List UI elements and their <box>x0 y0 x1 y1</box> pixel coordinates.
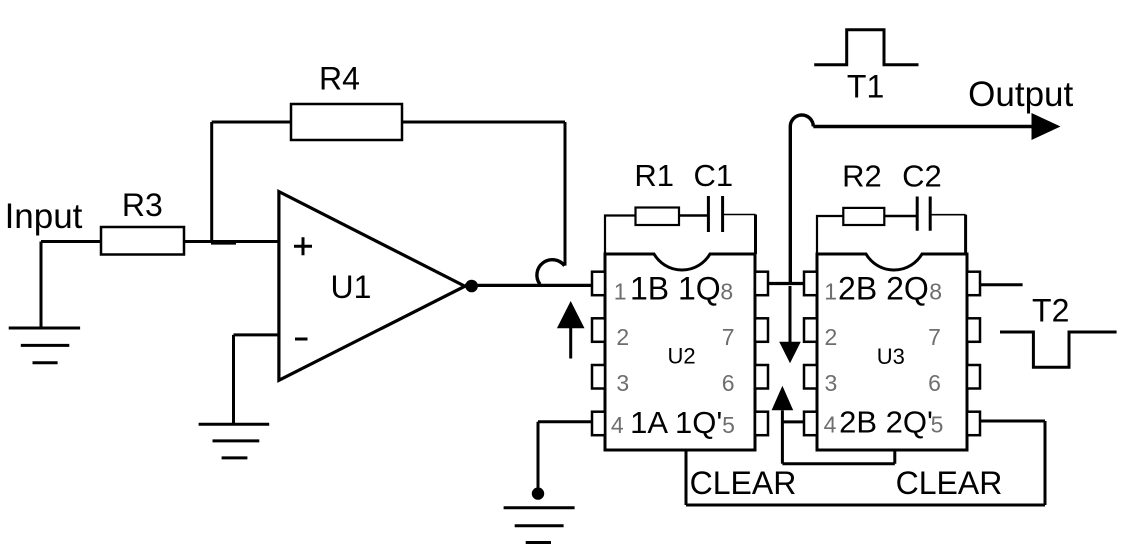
capacitor C2 <box>917 197 930 231</box>
U2 pin 6 box <box>755 365 768 389</box>
svg-text:1: 1 <box>614 279 627 305</box>
wire R1 C1 bracket right vertical <box>754 215 757 255</box>
U3 pin 2 box <box>804 318 817 342</box>
svg-text:R3: R3 <box>122 187 163 223</box>
svg-text:5: 5 <box>931 412 944 438</box>
wire hop curl at output arrow <box>790 115 813 127</box>
svg-text:Input: Input <box>5 197 83 236</box>
svg-text:1A 1Q': 1A 1Q' <box>630 405 722 440</box>
svg-text:R4: R4 <box>319 61 360 97</box>
wire C1 to bracket right <box>723 214 756 216</box>
U2 pin 3 box <box>592 365 605 389</box>
wire clear tee to U3 pin4 <box>782 420 804 423</box>
svg-text:C1: C1 <box>693 158 733 193</box>
wire R4 top right <box>402 121 565 124</box>
svg-text:8: 8 <box>929 279 942 305</box>
svg-text:2: 2 <box>616 324 629 350</box>
svg-text:T2: T2 <box>1032 293 1069 329</box>
U3 pin 1 box <box>804 272 817 296</box>
waveform T2 pulse <box>1000 332 1117 367</box>
U3 pin 3 box <box>804 365 817 389</box>
node ground junction dot <box>532 487 544 499</box>
svg-text:Output: Output <box>968 75 1073 114</box>
waveform T1 pulse <box>814 30 918 65</box>
U2 pin 5 box <box>755 412 768 436</box>
U2 pin 7 box <box>755 318 768 342</box>
ground input <box>9 328 80 363</box>
wire clear bus up to U3 pin5 <box>980 421 1046 505</box>
svg-text:R1: R1 <box>634 158 674 193</box>
capacitor C1 <box>708 196 722 232</box>
svg-text:3: 3 <box>616 370 629 396</box>
node output junction dot <box>465 280 478 293</box>
svg-text:5: 5 <box>722 412 735 438</box>
op-amp U1 <box>279 192 465 381</box>
U3 pin 8 box <box>967 272 980 296</box>
IC U2 body <box>605 254 755 450</box>
wire R2 C2 bracket left <box>817 216 843 254</box>
svg-text:7: 7 <box>928 324 941 350</box>
svg-text:7: 7 <box>722 324 735 350</box>
wire R2 to C2 <box>884 215 917 218</box>
svg-text:1B 1Q: 1B 1Q <box>630 271 721 307</box>
arrow output head <box>1032 113 1061 140</box>
svg-text:6: 6 <box>722 370 735 396</box>
op-amp plus sign <box>294 237 312 255</box>
wire R1 to C1 <box>679 214 708 217</box>
wire op-amp output to U2 pin1 <box>465 284 592 287</box>
svg-text:8: 8 <box>720 279 733 305</box>
wire U2 clear down <box>685 450 688 505</box>
wire R4 top left <box>212 121 291 124</box>
resistor R2 <box>843 208 884 225</box>
wire inverting input <box>234 335 281 424</box>
svg-text:U1: U1 <box>331 269 372 305</box>
resistor R4 <box>291 104 402 140</box>
wire input down to ground <box>40 242 43 329</box>
svg-text:U2: U2 <box>668 344 696 369</box>
svg-text:U3: U3 <box>877 344 905 369</box>
wire R3 to op-amp <box>184 240 280 243</box>
wire output tap vertical <box>789 127 792 284</box>
wire R1 C1 bracket left <box>605 216 636 255</box>
U3 pin 5 box <box>967 412 980 436</box>
wire hop curl at op-amp output <box>537 260 565 285</box>
wire C2 to bracket right <box>930 214 965 216</box>
svg-text:2: 2 <box>825 324 838 350</box>
wire clear bottom bus <box>686 504 1045 507</box>
wire U2 pin4 to ground <box>538 422 592 488</box>
svg-text:C2: C2 <box>902 159 942 194</box>
svg-text:6: 6 <box>928 370 941 396</box>
arrow rising edge into U2 <box>557 301 585 359</box>
op-amp minus sign <box>295 338 308 341</box>
svg-text:R2: R2 <box>842 159 882 194</box>
svg-text:CLEAR: CLEAR <box>896 465 1003 501</box>
svg-text:3: 3 <box>825 370 838 396</box>
wire R4 left vertical <box>210 122 213 242</box>
resistor R3 <box>101 227 184 255</box>
U2 pin 8 box <box>755 272 768 296</box>
resistor R1 <box>636 208 680 226</box>
wire output arrow line <box>813 125 1036 128</box>
svg-text:4: 4 <box>611 412 624 438</box>
arrow falling edge into U3 <box>779 286 801 363</box>
U2 pin 4 box <box>592 412 605 436</box>
U2 pin 1 box <box>592 272 605 296</box>
wire R2 C2 bracket right vertical <box>964 215 967 254</box>
svg-text:T1: T1 <box>847 69 884 105</box>
arrow rising edge clear <box>772 386 794 464</box>
wire U3 clear path <box>782 449 894 464</box>
IC U3 body <box>817 254 967 450</box>
U3 pin 7 box <box>967 318 980 342</box>
U3 pin 6 box <box>967 365 980 389</box>
wire U3 pin8 out <box>980 283 1023 286</box>
svg-text:1: 1 <box>824 279 837 305</box>
wire input to R3 <box>41 240 101 243</box>
svg-text:2B 2Q': 2B 2Q' <box>839 405 933 440</box>
wire R4 right vertical <box>564 122 567 266</box>
svg-text:4: 4 <box>824 412 837 438</box>
svg-text:2B 2Q: 2B 2Q <box>838 271 929 307</box>
U2 pin 2 box <box>592 318 605 342</box>
ground U2 pin4 <box>504 508 575 543</box>
wire U2 pin8 to U3 pin1 <box>768 282 805 285</box>
U3 pin 4 box <box>804 412 817 436</box>
wire junction overlap <box>211 240 236 245</box>
svg-text:CLEAR: CLEAR <box>690 465 797 501</box>
ground op-amp <box>199 424 270 458</box>
